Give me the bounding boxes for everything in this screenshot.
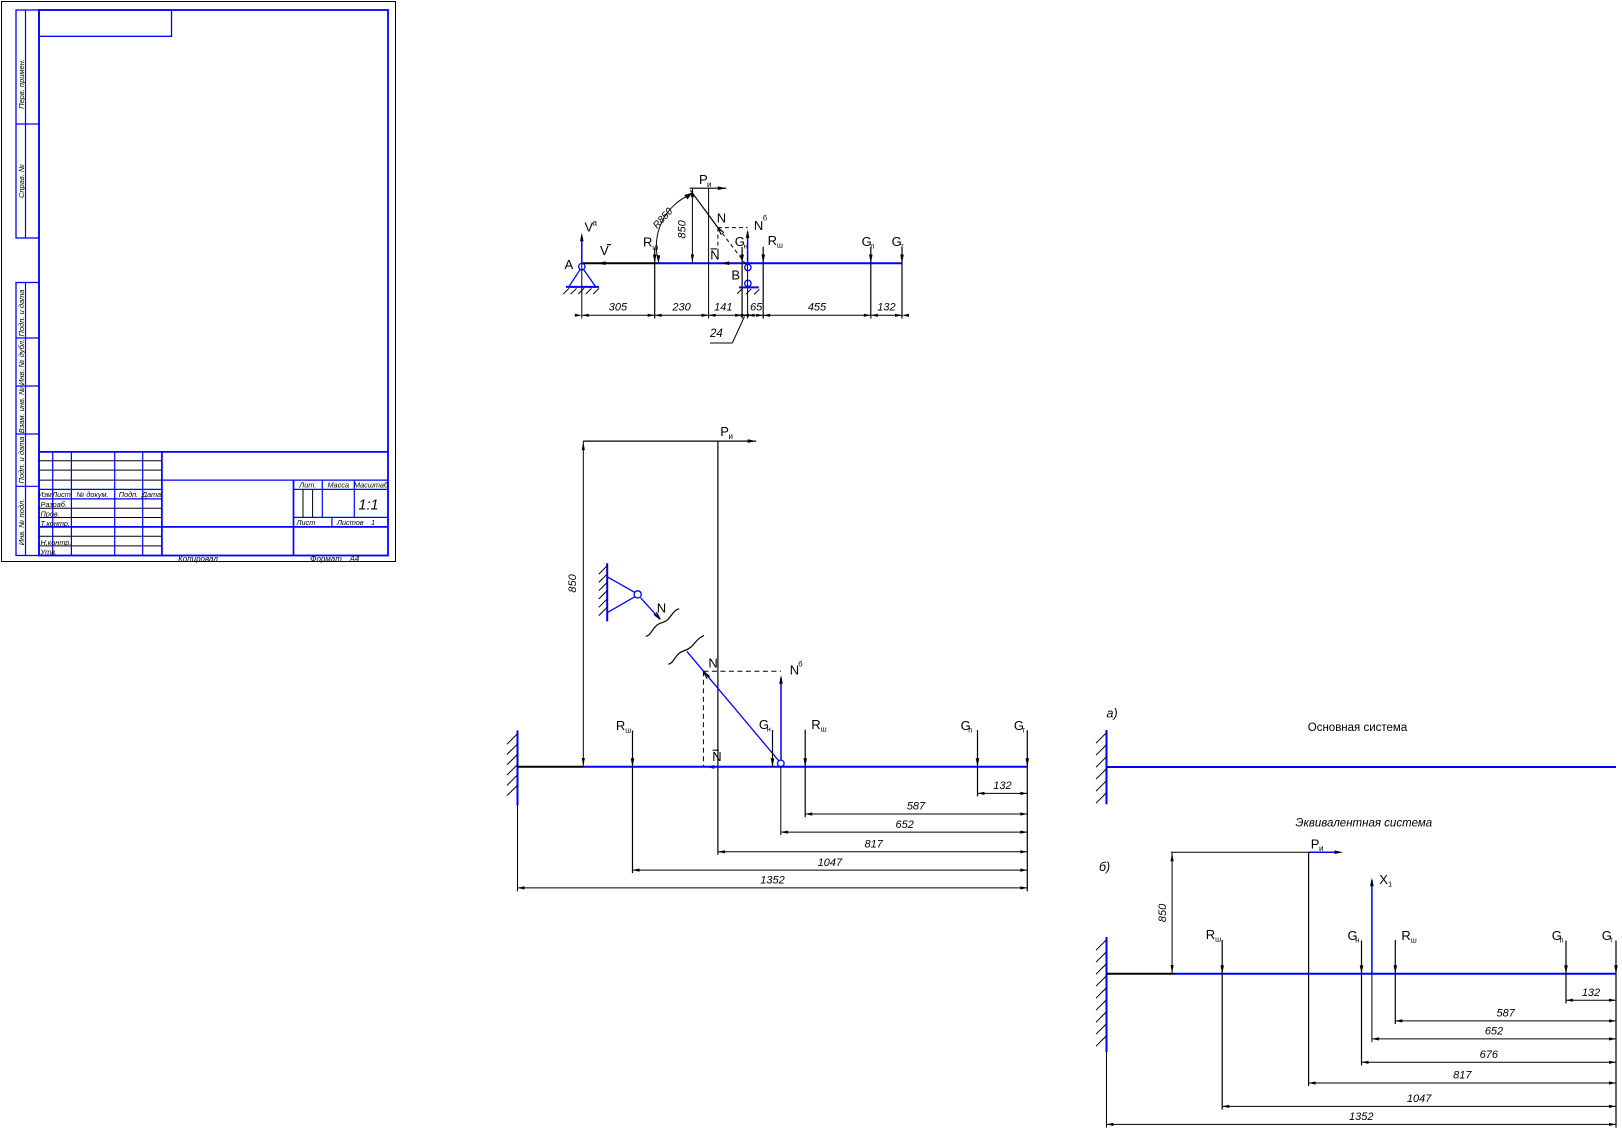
svg-text:132: 132 [1582, 987, 1600, 999]
svg-text:V: V [600, 243, 609, 258]
label Gt (top) [892, 234, 905, 251]
svg-text:X: X [1379, 872, 1388, 887]
svg-text:Масштаб: Масштаб [354, 481, 389, 490]
svg-text:R: R [643, 235, 652, 250]
svg-text:132: 132 [877, 302, 895, 314]
svg-text:Взам. инв. №: Взам. инв. № [17, 387, 26, 433]
drawing frame [39, 10, 388, 556]
label Rsh1 (middle) [616, 718, 631, 735]
force Rsh1 (b) [1220, 940, 1224, 1110]
horizontal component N-bar arrow (top) [721, 261, 730, 265]
svg-text:п: п [870, 241, 874, 250]
svg-text:1:1: 1:1 [358, 498, 378, 514]
label Rsh1 (b) [1206, 927, 1221, 944]
left strip upper group [16, 10, 39, 238]
left wall (middle) [507, 730, 518, 805]
svg-text:ш: ш [1215, 934, 1221, 943]
svg-text:Инв. № дубл.: Инв. № дубл. [17, 339, 26, 385]
force Gn (b) [1360, 941, 1364, 1066]
svg-text:ш: ш [625, 726, 631, 735]
rotation arc R850 [656, 193, 692, 263]
Pi force (diagram b) [1171, 850, 1343, 854]
label X1 [1379, 872, 1392, 889]
title block grid [39, 452, 388, 556]
component construction dashed box (top) [718, 228, 748, 264]
wall (diagram b) [1096, 937, 1107, 1128]
svg-text:A: A [565, 257, 574, 272]
strut rod lower segment (middle) [687, 651, 779, 760]
beam (middle) [518, 766, 1028, 768]
label Gt (b) [1602, 928, 1614, 945]
svg-text:Эквивалентная система: Эквивалентная система [1296, 818, 1433, 830]
force Rsh1 (left) [653, 248, 657, 319]
svg-text:850: 850 [1157, 903, 1169, 922]
svg-text:141: 141 [714, 302, 732, 314]
force Rsh2 (b) [1394, 940, 1398, 1024]
arc label R 850 [651, 206, 675, 231]
force Gt (b) [1614, 941, 1618, 1128]
upper pivot wall (middle) [599, 563, 608, 621]
svg-text:1: 1 [371, 518, 375, 527]
break mark 2 [668, 636, 704, 665]
svg-text:ш: ш [652, 242, 658, 251]
svg-text:652: 652 [896, 819, 914, 831]
svg-text:Лит.: Лит. [298, 481, 316, 490]
svg-text:817: 817 [1453, 1070, 1472, 1082]
vertical component Nb (middle, blue) [779, 675, 783, 760]
svg-text:т: т [1610, 935, 1614, 944]
svg-text:и: и [1319, 844, 1323, 853]
label Gp (b) [1552, 928, 1564, 945]
label N-bar (top) [710, 247, 719, 262]
strut direction line N (top diagram) [690, 190, 746, 265]
label Rsh2 (top) [768, 233, 783, 250]
break mark 1 [646, 609, 679, 637]
svg-text:б: б [763, 214, 767, 223]
label Rsh2 (b) [1401, 928, 1416, 945]
svg-text:Масса: Масса [328, 481, 350, 490]
label N-bar (middle) [712, 749, 721, 764]
svg-text:б: б [798, 660, 802, 669]
label Gn (top) [735, 234, 748, 251]
force Rsh1 (middle) [631, 731, 635, 874]
svg-text:132: 132 [993, 780, 1011, 792]
svg-text:850: 850 [567, 573, 579, 592]
support A (pin) [566, 263, 599, 287]
beam (diagram b) [1107, 973, 1617, 975]
svg-text:н: н [767, 724, 771, 733]
svg-text:1047: 1047 [1407, 1093, 1432, 1105]
svg-text:ш: ш [1411, 935, 1417, 944]
beam (diagram a) [1107, 766, 1617, 768]
joint B support [739, 263, 759, 318]
svg-text:24: 24 [709, 328, 723, 340]
svg-text:N: N [657, 601, 666, 616]
svg-text:Подп.: Подп. [119, 490, 138, 499]
dimension lines (middle) [518, 792, 1028, 890]
title block texts [38, 481, 389, 564]
label Gn (b) [1348, 928, 1360, 945]
svg-text:п: п [968, 726, 972, 735]
svg-text:B: B [731, 267, 740, 282]
svg-text:б): б) [1099, 860, 1110, 874]
svg-text:Инв. № подл.: Инв. № подл. [17, 499, 26, 546]
force Gp (top) [869, 247, 873, 319]
svg-text:А4: А4 [349, 555, 360, 564]
force Gn at B (top) [740, 247, 744, 319]
svg-text:Н.контр.: Н.контр. [41, 538, 72, 547]
svg-text:587: 587 [1497, 1008, 1516, 1020]
dimension 850 (b) [1157, 852, 1174, 974]
velocity V' arrow on beam [597, 261, 606, 265]
Pi line of action (middle) [717, 441, 719, 855]
hatching under support A [563, 288, 599, 294]
svg-text:1047: 1047 [818, 857, 843, 869]
label Nb (top) [754, 214, 767, 233]
svg-text:65: 65 [750, 302, 763, 314]
dimension lines (b) [1107, 999, 1617, 1126]
svg-text:Листов: Листов [336, 518, 364, 527]
label Gp (middle) [961, 718, 973, 735]
svg-text:455: 455 [808, 302, 827, 314]
dimension labels (b) [1349, 987, 1600, 1123]
joint B circle (middle) [778, 760, 785, 767]
svg-text:ш: ш [821, 725, 827, 734]
left strip lower group [16, 283, 39, 556]
svg-text:652: 652 [1485, 1026, 1503, 1038]
dimension labels (top) [609, 302, 896, 314]
Pi line of action (b) [1308, 852, 1310, 1086]
label Pi (b) [1311, 837, 1324, 854]
force Gn (middle) [771, 730, 775, 767]
label Va [585, 219, 598, 235]
svg-text:ш: ш [777, 240, 783, 249]
force Gp (b) [1564, 941, 1568, 1004]
pivot bracket and pin (middle) [607, 577, 641, 613]
Pi force line (middle) [583, 439, 756, 443]
svg-text:a: a [593, 219, 598, 228]
strut rod upper segment (middle) [641, 598, 661, 620]
inertia force Pi (top diagram) [690, 186, 727, 190]
svg-text:N: N [708, 656, 717, 671]
label Rsh1 [643, 235, 658, 252]
dimension 850 (middle) [567, 441, 585, 767]
svg-text:Формат: Формат [310, 555, 342, 564]
leader 24 [709, 317, 745, 344]
label Gn (middle) [759, 717, 771, 734]
force Gp (middle) [976, 730, 980, 796]
svg-text:Копировал: Копировал [178, 555, 218, 564]
svg-text:Пров.: Пров. [41, 509, 60, 518]
vertical component Nb arrow (top, blue) [746, 230, 750, 264]
svg-text:R: R [1401, 928, 1410, 943]
top-left document designation box [39, 10, 172, 36]
svg-text:н: н [1355, 935, 1359, 944]
dimension labels (middle) [760, 780, 1011, 887]
force Rsh2 (middle) [803, 730, 807, 818]
svg-text:Подп. и дата: Подп. и дата [17, 437, 26, 484]
svg-text:Основная система: Основная система [1308, 722, 1408, 734]
dimension chain line (top diagram) [575, 263, 909, 318]
svg-text:Т.контр.: Т.контр. [41, 519, 70, 528]
svg-text:R: R [616, 718, 625, 733]
wall (diagram a) [1096, 730, 1107, 804]
label Gp (top) [862, 234, 875, 251]
svg-text:N: N [717, 211, 726, 226]
svg-text:676: 676 [1480, 1049, 1499, 1061]
svg-text:т: т [900, 241, 904, 250]
svg-text:Разраб.: Разраб. [41, 500, 67, 509]
svg-text:т: т [1022, 726, 1026, 735]
svg-text:и: и [729, 432, 733, 441]
svg-text:R: R [768, 233, 777, 248]
svg-text:1352: 1352 [760, 875, 784, 887]
svg-text:Утв.: Утв. [40, 547, 58, 556]
svg-text:Дата: Дата [141, 490, 161, 499]
svg-text:Справ. №: Справ. № [17, 164, 26, 198]
force N arrowhead at beam (middle) [703, 672, 709, 679]
svg-text:587: 587 [907, 801, 926, 813]
label Rsh2 (middle) [811, 717, 826, 734]
force Gt (middle) [1026, 730, 1030, 891]
extension lines (middle dims) [518, 767, 781, 891]
unknown X1 arrow (b) [1370, 878, 1374, 974]
svg-text:850: 850 [677, 219, 689, 238]
svg-text:Лист: Лист [296, 518, 316, 527]
svg-text:№ докум.: № докум. [76, 490, 108, 499]
hatching under B support [737, 289, 759, 295]
svg-text:Лист: Лист [51, 490, 71, 499]
svg-text:R850: R850 [651, 206, 675, 231]
dimension 850 (top diagram) [677, 188, 694, 263]
svg-text:и: и [707, 180, 711, 189]
sheet outer border [2, 2, 396, 562]
svg-text:817: 817 [865, 839, 884, 851]
velocity Va arrow at A [580, 233, 584, 263]
label V' [600, 243, 611, 258]
dashed component box (middle) [703, 671, 781, 767]
svg-text:Перв. примен.: Перв. примен. [17, 59, 26, 109]
svg-text:1352: 1352 [1349, 1111, 1373, 1123]
label Gt (middle) [1014, 718, 1026, 735]
top diagram: beam AB [582, 262, 902, 264]
svg-text:R: R [811, 717, 820, 732]
svg-text:305: 305 [609, 302, 628, 314]
label Pi (middle) [720, 424, 733, 441]
horizontal component N-bar (middle) [706, 765, 715, 769]
svg-text:230: 230 [671, 302, 691, 314]
svg-text:N: N [710, 247, 719, 262]
svg-text:п: п [1560, 935, 1564, 944]
svg-text:1: 1 [1388, 880, 1392, 889]
force Rsh2 (top) [761, 247, 765, 319]
label Pi (top) [699, 172, 711, 189]
svg-text:R: R [1206, 927, 1215, 942]
extension line under Pi [708, 188, 710, 318]
X1 extension line (b) [1371, 974, 1373, 1042]
svg-text:Подп. и дата: Подп. и дата [17, 290, 26, 337]
force Gt (top) [900, 247, 904, 319]
svg-text:а): а) [1107, 707, 1118, 721]
label Nb (middle) [790, 660, 803, 678]
svg-text:N: N [712, 749, 721, 764]
